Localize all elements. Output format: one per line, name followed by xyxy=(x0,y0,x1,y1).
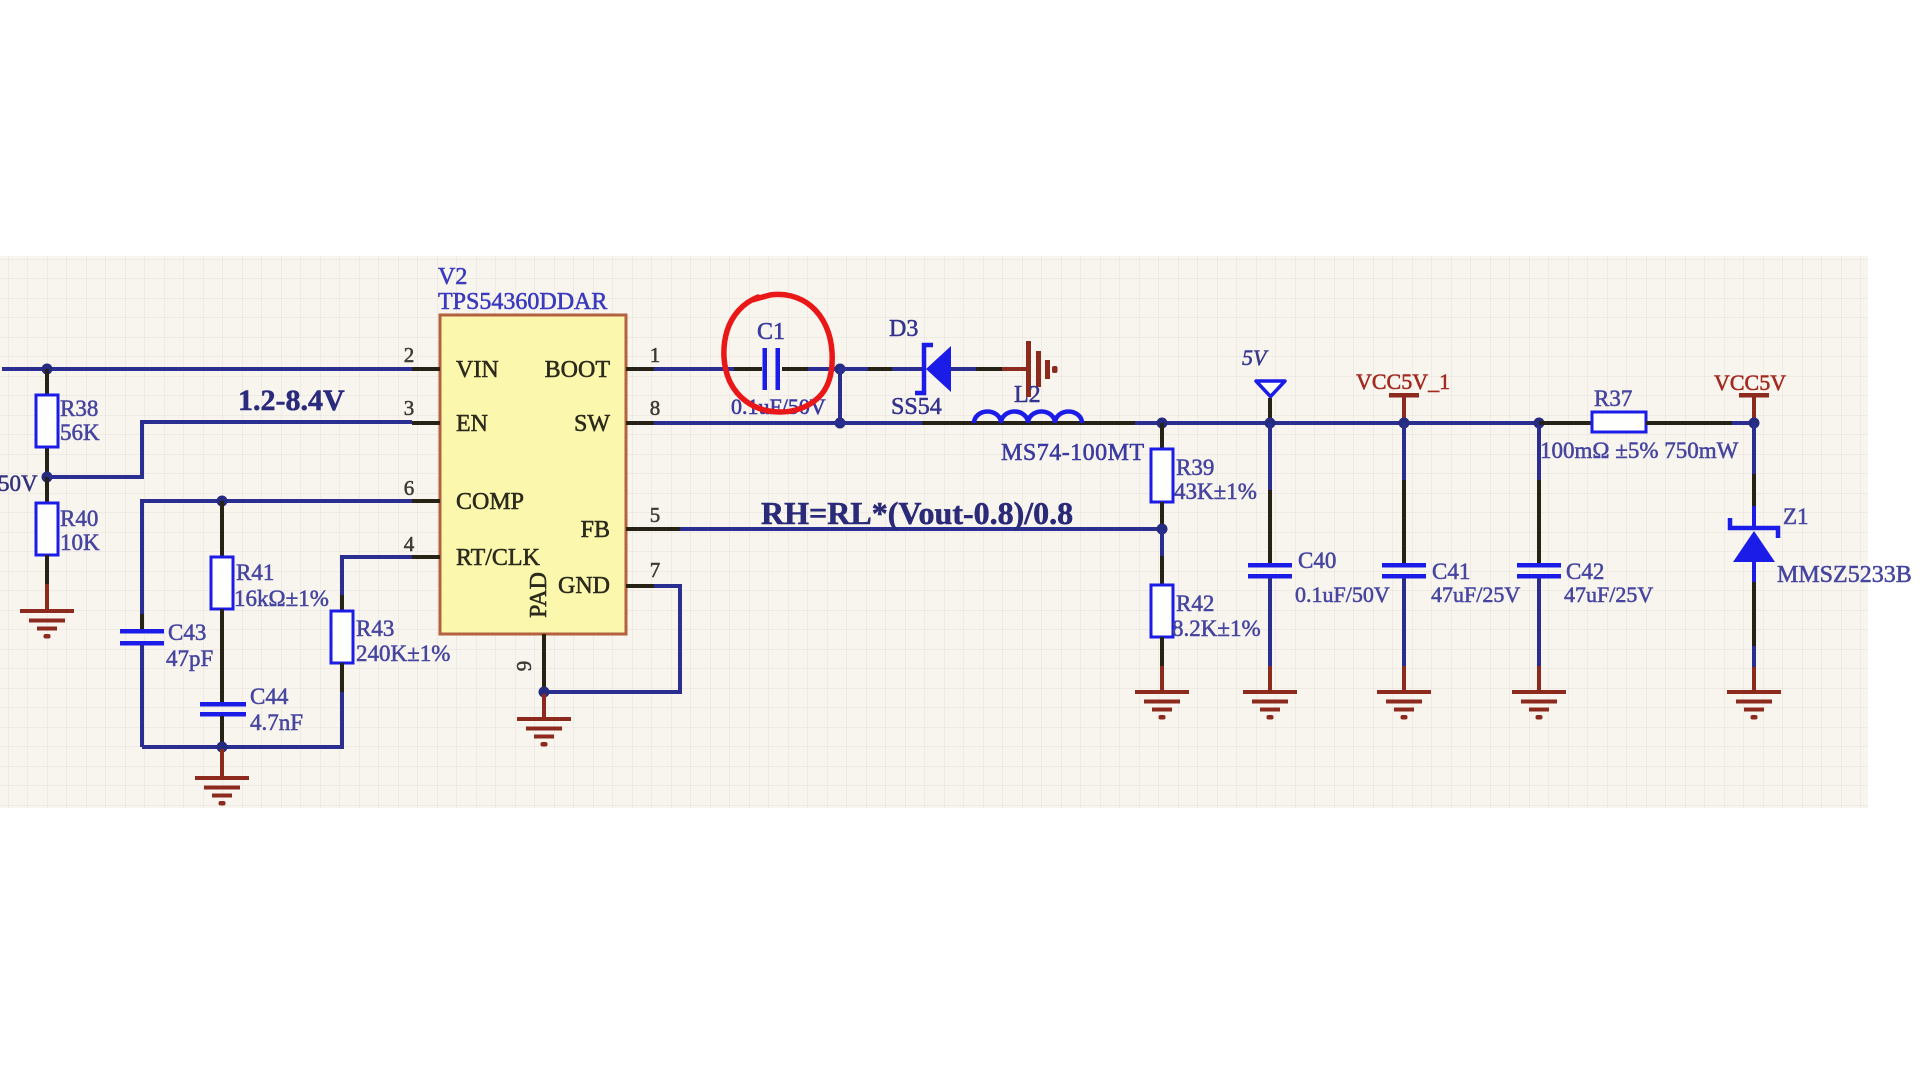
pin 5 FB stub xyxy=(626,503,680,529)
svg-text:Z1: Z1 xyxy=(1783,504,1809,529)
pin 1 BOOT stub xyxy=(626,343,660,369)
resistor R42 xyxy=(1151,529,1261,692)
resistor R41 xyxy=(211,501,329,611)
wire compensation bottom net xyxy=(142,692,342,747)
svg-text:C44: C44 xyxy=(250,684,289,709)
wire VIN rail xyxy=(2,367,412,371)
svg-text:R42: R42 xyxy=(1176,591,1214,616)
capacitor C42 xyxy=(1517,423,1653,692)
wire BOOT to SW vertical xyxy=(835,364,846,429)
svg-text:SW: SW xyxy=(574,411,610,437)
wire EN net xyxy=(47,422,412,477)
node VIN-R38 junction xyxy=(42,364,53,375)
red marker circle around C1 xyxy=(724,294,832,412)
svg-text:VCC5V_1: VCC5V_1 xyxy=(1356,369,1450,394)
svg-text:10K: 10K xyxy=(60,530,100,555)
power port VCC5V_1 xyxy=(1356,369,1450,423)
capacitor C43 xyxy=(120,620,213,747)
svg-text:R40: R40 xyxy=(60,506,98,531)
svg-text:BOOT: BOOT xyxy=(545,357,611,383)
svg-text:VIN: VIN xyxy=(456,357,499,383)
wire RT/CLK net xyxy=(342,557,412,611)
diode D3 SS54 xyxy=(889,316,1002,420)
svg-text:D3: D3 xyxy=(889,316,918,342)
svg-text:16kΩ±1%: 16kΩ±1% xyxy=(234,586,329,611)
svg-text:C41: C41 xyxy=(1432,559,1470,584)
wire FB net xyxy=(654,524,1168,535)
ground under C40 xyxy=(1243,690,1297,720)
power ground bar right of D3 xyxy=(1002,341,1058,397)
svg-text:4: 4 xyxy=(404,532,415,556)
svg-text:FB: FB xyxy=(581,517,610,543)
pin 9 PAD stub xyxy=(512,634,544,692)
node VCC5V_1 junction xyxy=(1399,418,1410,429)
wire SW net xyxy=(654,421,1539,425)
ground under C41 xyxy=(1377,690,1431,720)
label 1.2-8.4V xyxy=(238,384,345,417)
svg-text:8.2K±1%: 8.2K±1% xyxy=(1172,616,1261,641)
wire BOOT net xyxy=(654,367,840,371)
svg-text:R39: R39 xyxy=(1176,455,1214,480)
ground under C44 xyxy=(195,776,249,806)
capacitor C40 xyxy=(1248,423,1390,692)
svg-text:R43: R43 xyxy=(356,616,394,641)
pin 7 GND stub xyxy=(626,558,660,586)
svg-text:1.2-8.4V: 1.2-8.4V xyxy=(238,384,345,417)
svg-text:R41: R41 xyxy=(236,560,274,585)
svg-text:1: 1 xyxy=(650,343,661,367)
wire SW to diode xyxy=(840,367,922,371)
svg-text:V2: V2 xyxy=(438,264,467,290)
svg-text:R37: R37 xyxy=(1594,386,1632,411)
pin 8 SW stub xyxy=(626,396,660,423)
power port VCC5V xyxy=(1714,370,1786,423)
svg-text:C40: C40 xyxy=(1298,548,1336,573)
ground under C42 xyxy=(1512,690,1566,720)
svg-text:6: 6 xyxy=(404,476,415,500)
svg-text:7: 7 xyxy=(650,558,661,582)
svg-text:COMP: COMP xyxy=(456,489,524,515)
svg-text:MS74-100MT: MS74-100MT xyxy=(1001,440,1145,466)
svg-text:MMSZ5233B: MMSZ5233B xyxy=(1777,562,1912,588)
resistor R37 xyxy=(1539,386,1754,463)
label 50V xyxy=(0,471,38,496)
resistor R43 xyxy=(331,611,450,692)
svg-text:EN: EN xyxy=(456,411,488,437)
node SW-C42 junction xyxy=(1534,418,1545,429)
svg-text:C42: C42 xyxy=(1566,559,1604,584)
svg-text:SS54: SS54 xyxy=(891,394,942,420)
capacitor C44 xyxy=(200,609,303,747)
svg-text:47uF/25V: 47uF/25V xyxy=(1564,582,1653,607)
wire GND pin7 to pin9 xyxy=(544,586,680,692)
svg-text:0.1uF/50V: 0.1uF/50V xyxy=(1295,582,1390,607)
svg-text:RH=RL*(Vout-0.8)/0.8: RH=RL*(Vout-0.8)/0.8 xyxy=(761,495,1073,531)
node bottom junction xyxy=(217,742,228,779)
pin 6 COMP stub xyxy=(404,476,440,501)
node R38-R40 junction xyxy=(42,472,53,483)
pin 4 RT/CLK stub xyxy=(404,532,440,557)
svg-text:C43: C43 xyxy=(168,620,206,645)
svg-text:GND: GND xyxy=(558,573,610,599)
svg-text:47pF: 47pF xyxy=(166,646,213,671)
svg-text:PAD: PAD xyxy=(526,572,552,618)
svg-text:R38: R38 xyxy=(60,396,98,421)
svg-text:VCC5V: VCC5V xyxy=(1714,370,1786,395)
svg-text:56K: 56K xyxy=(60,420,100,445)
ground under Z1 xyxy=(1727,690,1781,720)
svg-text:2: 2 xyxy=(404,343,415,367)
node pin9 junction xyxy=(539,687,550,720)
ground under R40 xyxy=(20,609,74,639)
node COMP-R41 junction xyxy=(217,496,228,507)
svg-text:C1: C1 xyxy=(757,319,785,345)
svg-text:9: 9 xyxy=(512,661,536,672)
label RH formula xyxy=(761,495,1073,531)
svg-text:L2: L2 xyxy=(1014,382,1041,408)
svg-text:5V: 5V xyxy=(1242,345,1269,370)
zener diode Z1 MMSZ5233B xyxy=(1730,423,1912,692)
resistor R40 xyxy=(36,477,100,611)
ground under pin 9 xyxy=(517,717,571,747)
inductor L2 MS74-100MT xyxy=(974,382,1145,466)
node VCC5V junction xyxy=(1749,418,1760,429)
node SW-R39 junction xyxy=(1157,418,1168,429)
resistor R38 xyxy=(36,369,100,477)
wire COMP net xyxy=(142,501,412,629)
power port 5V xyxy=(1242,345,1285,423)
svg-text:240K±1%: 240K±1% xyxy=(356,641,450,666)
pin 3 EN stub xyxy=(404,396,440,423)
svg-text:100mΩ ±5% 750mW: 100mΩ ±5% 750mW xyxy=(1540,438,1739,463)
svg-text:5: 5 xyxy=(650,503,661,527)
svg-text:3: 3 xyxy=(404,396,415,420)
svg-text:8: 8 xyxy=(650,396,661,420)
svg-text:47uF/25V: 47uF/25V xyxy=(1431,582,1520,607)
svg-text:50V: 50V xyxy=(0,471,38,496)
op-amp U1 ic V2 TPS54360DDAR xyxy=(438,264,626,634)
pin 2 VIN stub xyxy=(404,343,440,369)
resistor R39 xyxy=(1151,423,1257,529)
svg-text:RT/CLK: RT/CLK xyxy=(456,545,541,571)
capacitor C41 xyxy=(1382,423,1520,692)
svg-text:4.7nF: 4.7nF xyxy=(250,710,303,735)
svg-text:TPS54360DDAR: TPS54360DDAR xyxy=(438,289,607,315)
node 5V junction xyxy=(1265,418,1276,429)
ground under R42 xyxy=(1135,690,1189,720)
svg-text:43K±1%: 43K±1% xyxy=(1174,479,1257,504)
capacitor C1 xyxy=(731,319,826,419)
